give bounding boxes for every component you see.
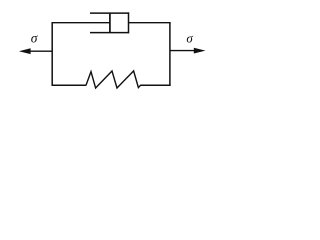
right stress arrow shaft [170,50,195,52]
spring (zigzag) [86,71,141,88]
wire: bottom branch, left of spring [52,84,87,86]
dashpot (damper) cylinder top wall [90,12,129,14]
right stress arrowhead [194,48,206,54]
right vertical bar of frame [169,22,171,86]
dashpot cylinder bottom wall [90,32,129,34]
wire: bottom branch, right of spring [140,84,170,86]
svg-text:σ: σ [186,31,193,46]
wire: top branch rod, left of dashpot [52,22,111,24]
left stress arrowhead [19,48,31,54]
dashpot cylinder closed right end [128,12,130,33]
left stress arrow shaft [28,50,52,52]
dashpot piston plate [109,13,111,33]
left vertical bar of frame [51,22,53,86]
wire: top branch rod, right of dashpot [129,22,171,24]
